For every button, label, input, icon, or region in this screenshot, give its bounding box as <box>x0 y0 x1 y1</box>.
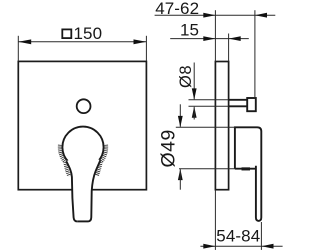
dim 47-62 extension line right <box>254 10 256 98</box>
pin extension thin lines <box>189 99 229 101</box>
svg-text:Ø8: Ø8 <box>177 65 195 88</box>
dim diameter 49 arrow up <box>178 169 183 180</box>
dim 54-84 extension line left <box>214 190 216 250</box>
dim 15 dimension line with tails <box>170 38 249 40</box>
dim 47-62 arrow right (pointing left) <box>255 13 267 18</box>
lever stem left edge <box>66 161 77 221</box>
dim 150 extension line right <box>145 36 147 61</box>
dim 47-62 extension line left <box>214 10 216 61</box>
svg-text:15: 15 <box>180 20 199 39</box>
wall plate front view <box>18 61 146 189</box>
handle hatching right <box>97 145 106 176</box>
dim 47-62 arrow left (pointing right) <box>203 13 215 18</box>
dim diameter 8 leader bottom <box>193 107 195 120</box>
svg-text:54-84: 54-84 <box>216 226 260 245</box>
dim 150 dimension line <box>18 41 146 43</box>
dim diameter 49 arrow down <box>178 116 183 127</box>
dim 15 extension line <box>228 34 230 62</box>
dim 54-84 dimension line with tails <box>200 245 282 247</box>
lever neck and stem white fill <box>66 153 100 221</box>
handle hatching left <box>60 145 70 177</box>
dim 150 square symbol <box>62 29 71 38</box>
dim diameter 49 extension top <box>176 126 235 128</box>
dim 150 extension line left <box>17 36 19 61</box>
escutcheon side view <box>215 62 228 190</box>
knob bottom detail dash <box>242 167 251 170</box>
svg-text:150: 150 <box>74 24 103 43</box>
lever stem bottom edge <box>77 220 88 222</box>
svg-text:Ø49: Ø49 <box>158 129 180 167</box>
dim diameter 8 arrow up <box>192 106 197 117</box>
button circle <box>77 99 91 113</box>
dim 54-84 arrow right (pointing left) <box>261 244 273 249</box>
knob bottom edge side view <box>235 168 256 170</box>
lever stem right edge <box>88 160 100 221</box>
dim diameter 49 leader top <box>179 104 181 127</box>
dim diameter 8 leader top <box>193 63 195 100</box>
pin head <box>247 98 256 111</box>
pin spindle side view <box>229 100 248 107</box>
dim 15 arrow right (pointing left) <box>229 36 241 41</box>
lever knob circle front view <box>62 127 103 168</box>
dim 15 arrow left (pointing right) <box>203 36 215 41</box>
dim diameter 49 extension bottom <box>179 168 235 170</box>
dim diameter 8 arrow down <box>192 88 197 99</box>
dim 47-62 dimension line with tails <box>155 14 276 16</box>
dim 150 arrow right <box>134 39 147 44</box>
dim 54-84 extension line right <box>260 222 262 250</box>
knob and lever arm side view outline <box>235 127 261 221</box>
dim diameter 49 leader bottom <box>179 169 181 190</box>
dim 54-84 arrow left (pointing right) <box>203 244 215 249</box>
dim 150 arrow left <box>18 39 31 44</box>
